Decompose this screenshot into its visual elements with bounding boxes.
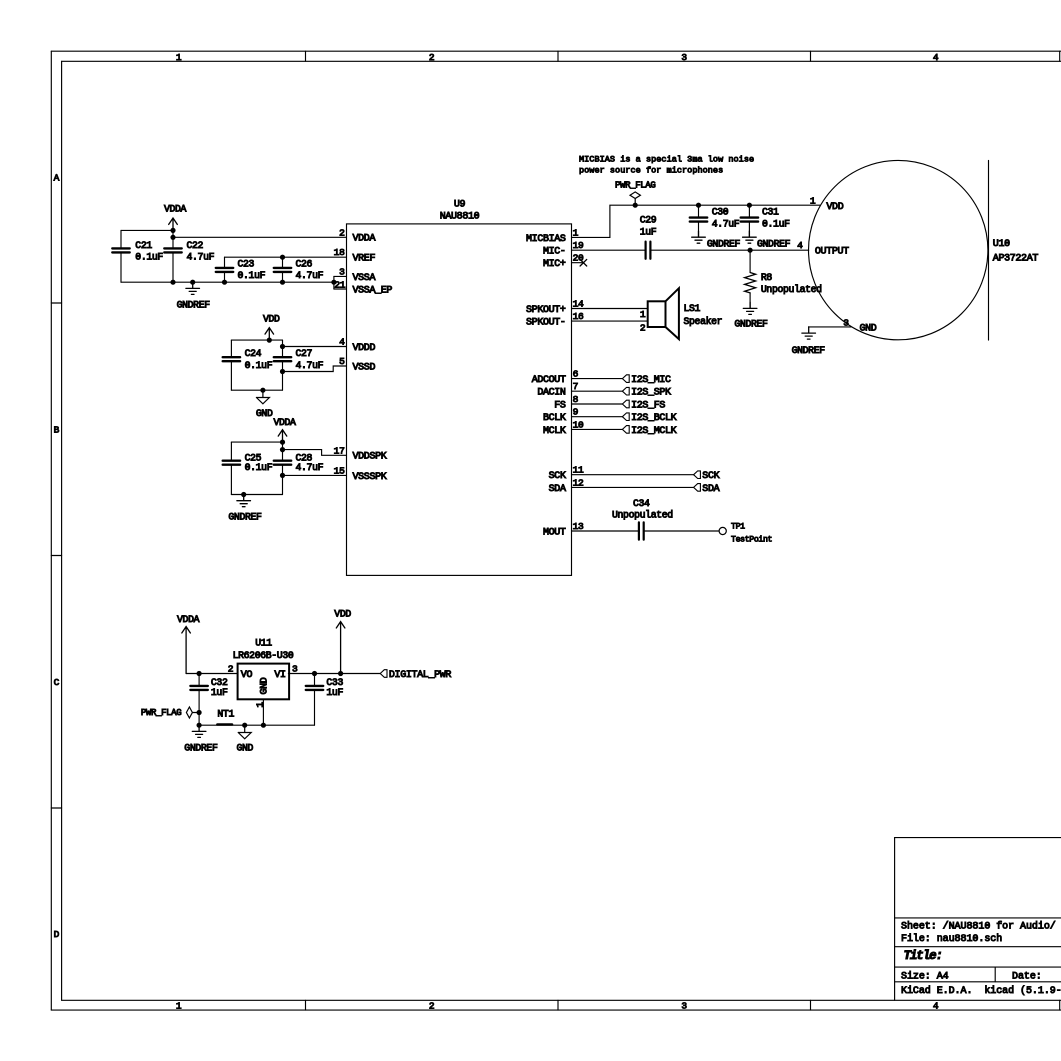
svg-text:14: 14 <box>573 299 584 310</box>
svg-text:C24: C24 <box>245 348 262 359</box>
svg-text:OUTPUT: OUTPUT <box>815 247 849 258</box>
svg-text:MICBIAS is a special 3ma low n: MICBIAS is a special 3ma low noise <box>579 154 754 164</box>
svg-text:1uF: 1uF <box>211 687 228 698</box>
svg-text:15: 15 <box>334 465 345 476</box>
svg-text:SCK: SCK <box>549 471 566 482</box>
svg-text:4: 4 <box>933 1000 939 1011</box>
svg-text:VDDA: VDDA <box>353 234 376 245</box>
svg-text:VSSA_EP: VSSA_EP <box>353 285 393 296</box>
svg-text:3: 3 <box>681 1000 687 1011</box>
svg-text:18: 18 <box>334 247 345 258</box>
svg-text:1: 1 <box>176 1000 182 1011</box>
svg-text:4.7uF: 4.7uF <box>296 462 324 473</box>
svg-text:NAU8810: NAU8810 <box>440 211 480 222</box>
svg-text:U10: U10 <box>993 239 1010 250</box>
svg-text:MIC+: MIC+ <box>543 259 566 270</box>
svg-text:GNDREF: GNDREF <box>757 238 791 249</box>
svg-text:TestPoint: TestPoint <box>731 535 773 545</box>
svg-text:Size: A4: Size: A4 <box>901 970 949 982</box>
svg-text:0.1uF: 0.1uF <box>238 270 266 281</box>
svg-text:U11: U11 <box>255 638 272 649</box>
svg-text:0.1uF: 0.1uF <box>135 252 163 263</box>
svg-text:C29: C29 <box>640 215 657 226</box>
svg-text:2: 2 <box>339 227 345 238</box>
svg-text:Title:: Title: <box>904 949 942 963</box>
svg-text:VDD: VDD <box>263 313 280 324</box>
svg-text:2: 2 <box>228 664 234 675</box>
svg-text:GNDREF: GNDREF <box>792 345 826 356</box>
svg-text:7: 7 <box>573 381 578 392</box>
svg-text:VDDA: VDDA <box>164 204 187 215</box>
svg-text:0.1uF: 0.1uF <box>245 360 273 371</box>
svg-text:1: 1 <box>810 195 816 206</box>
svg-text:1: 1 <box>573 227 579 238</box>
svg-text:MICBIAS: MICBIAS <box>526 234 566 245</box>
svg-text:Unpopulated: Unpopulated <box>761 284 822 295</box>
svg-text:C30: C30 <box>712 207 729 218</box>
svg-text:9: 9 <box>573 407 579 418</box>
svg-text:LS1: LS1 <box>684 303 701 314</box>
svg-text:1uF: 1uF <box>640 227 657 238</box>
svg-text:3: 3 <box>292 664 298 675</box>
svg-text:VDD: VDD <box>826 202 843 213</box>
svg-text:I2S_FS: I2S_FS <box>631 400 665 411</box>
svg-text:6: 6 <box>573 369 579 380</box>
svg-text:Speaker: Speaker <box>684 316 723 327</box>
svg-text:VSSSPK: VSSSPK <box>353 472 387 483</box>
svg-text:C23: C23 <box>238 259 255 270</box>
svg-text:4.7uF: 4.7uF <box>296 270 324 281</box>
svg-text:TP1: TP1 <box>731 523 745 532</box>
svg-text:PWR_FLAG: PWR_FLAG <box>141 708 181 718</box>
svg-text:I2S_MIC: I2S_MIC <box>631 375 671 386</box>
svg-text:B: B <box>54 425 60 436</box>
svg-text:GND: GND <box>860 323 877 334</box>
svg-text:I2S_SPK: I2S_SPK <box>631 388 671 399</box>
svg-text:4: 4 <box>797 240 803 251</box>
svg-text:12: 12 <box>573 477 584 488</box>
svg-text:MCLK: MCLK <box>543 426 566 437</box>
svg-text:4: 4 <box>339 337 345 348</box>
svg-text:SPKOUT+: SPKOUT+ <box>526 305 566 316</box>
svg-text:GND: GND <box>256 408 273 419</box>
svg-text:ADCOUT: ADCOUT <box>532 375 566 386</box>
svg-text:GNDREF: GNDREF <box>707 238 741 249</box>
svg-text:SDA: SDA <box>702 484 719 495</box>
svg-text:GNDREF: GNDREF <box>177 299 211 310</box>
svg-text:A: A <box>54 172 60 183</box>
svg-text:1: 1 <box>176 52 182 63</box>
svg-text:3: 3 <box>681 52 687 63</box>
svg-text:C22: C22 <box>187 240 204 251</box>
svg-text:5: 5 <box>339 356 345 367</box>
svg-text:4: 4 <box>933 52 939 63</box>
svg-text:NT1: NT1 <box>217 709 234 720</box>
svg-text:4.7uF: 4.7uF <box>187 252 215 263</box>
svg-text:File: nau8810.sch: File: nau8810.sch <box>901 933 1002 945</box>
svg-text:C: C <box>54 677 60 688</box>
svg-text:C34: C34 <box>633 498 650 509</box>
svg-text:VSSD: VSSD <box>353 362 376 373</box>
svg-text:DIGITAL_PWR: DIGITAL_PWR <box>389 670 452 681</box>
svg-text:VREF: VREF <box>353 254 376 265</box>
svg-text:power source for microphones: power source for microphones <box>579 166 723 176</box>
svg-text:Unpopulated: Unpopulated <box>612 510 673 521</box>
svg-text:VDDSPK: VDDSPK <box>353 452 387 463</box>
svg-text:I2S_MCLK: I2S_MCLK <box>631 426 677 437</box>
svg-text:2: 2 <box>429 52 435 63</box>
svg-text:C27: C27 <box>296 348 313 359</box>
svg-text:MOUT: MOUT <box>543 527 566 538</box>
svg-text:2: 2 <box>429 1000 435 1011</box>
svg-text:GNDREF: GNDREF <box>228 511 262 522</box>
svg-text:3: 3 <box>339 266 345 277</box>
svg-text:KiCad E.D.A. kicad (5.1.9-1): KiCad E.D.A. kicad (5.1.9-1) <box>901 985 1061 997</box>
svg-text:19: 19 <box>573 240 584 251</box>
svg-text:DACIN: DACIN <box>537 388 566 399</box>
svg-text:10: 10 <box>573 419 584 430</box>
svg-text:VI: VI <box>274 670 285 681</box>
svg-text:GND: GND <box>237 742 254 753</box>
svg-text:1uF: 1uF <box>326 687 343 698</box>
svg-text:C26: C26 <box>296 259 313 270</box>
svg-text:4.7uF: 4.7uF <box>712 219 740 230</box>
svg-text:U9: U9 <box>454 200 466 211</box>
svg-text:VSSA: VSSA <box>353 273 376 284</box>
svg-text:2: 2 <box>640 323 646 334</box>
svg-text:17: 17 <box>334 445 345 456</box>
svg-text:GNDREF: GNDREF <box>734 319 768 330</box>
svg-text:VDDA: VDDA <box>273 417 296 428</box>
svg-text:0.1uF: 0.1uF <box>762 219 790 230</box>
svg-text:D: D <box>54 929 60 940</box>
svg-text:GND: GND <box>259 677 270 694</box>
svg-text:AP3722AT: AP3722AT <box>993 254 1039 265</box>
svg-text:SDA: SDA <box>549 484 566 495</box>
svg-text:Date:: Date: <box>1012 971 1042 982</box>
svg-text:PWR_FLAG: PWR_FLAG <box>615 180 655 190</box>
svg-text:MIC-: MIC- <box>543 247 566 258</box>
svg-text:FS: FS <box>554 400 566 411</box>
svg-text:VDDA: VDDA <box>177 614 200 625</box>
svg-text:I2S_BCLK: I2S_BCLK <box>631 413 677 424</box>
svg-text:8: 8 <box>573 394 579 405</box>
svg-text:SCK: SCK <box>702 471 719 482</box>
svg-text:VO: VO <box>241 670 253 681</box>
svg-text:Sheet: /NAU8810 for Audio/: Sheet: /NAU8810 for Audio/ <box>901 920 1056 932</box>
svg-text:C31: C31 <box>762 207 779 218</box>
svg-text:BCLK: BCLK <box>543 413 566 424</box>
svg-text:C21: C21 <box>135 240 152 251</box>
svg-text:4.7uF: 4.7uF <box>296 360 324 371</box>
svg-text:LR6206B-U30: LR6206B-U30 <box>233 650 294 661</box>
svg-text:SPKOUT-: SPKOUT- <box>526 318 566 329</box>
svg-text:0.1uF: 0.1uF <box>245 462 273 473</box>
svg-text:VDDD: VDDD <box>353 343 376 354</box>
svg-text:VDD: VDD <box>334 608 351 619</box>
svg-text:16: 16 <box>573 311 584 322</box>
svg-text:1: 1 <box>640 309 646 320</box>
svg-text:R8: R8 <box>761 272 773 283</box>
svg-text:11: 11 <box>573 465 584 476</box>
svg-text:13: 13 <box>573 521 584 532</box>
svg-text:GNDREF: GNDREF <box>184 742 218 753</box>
